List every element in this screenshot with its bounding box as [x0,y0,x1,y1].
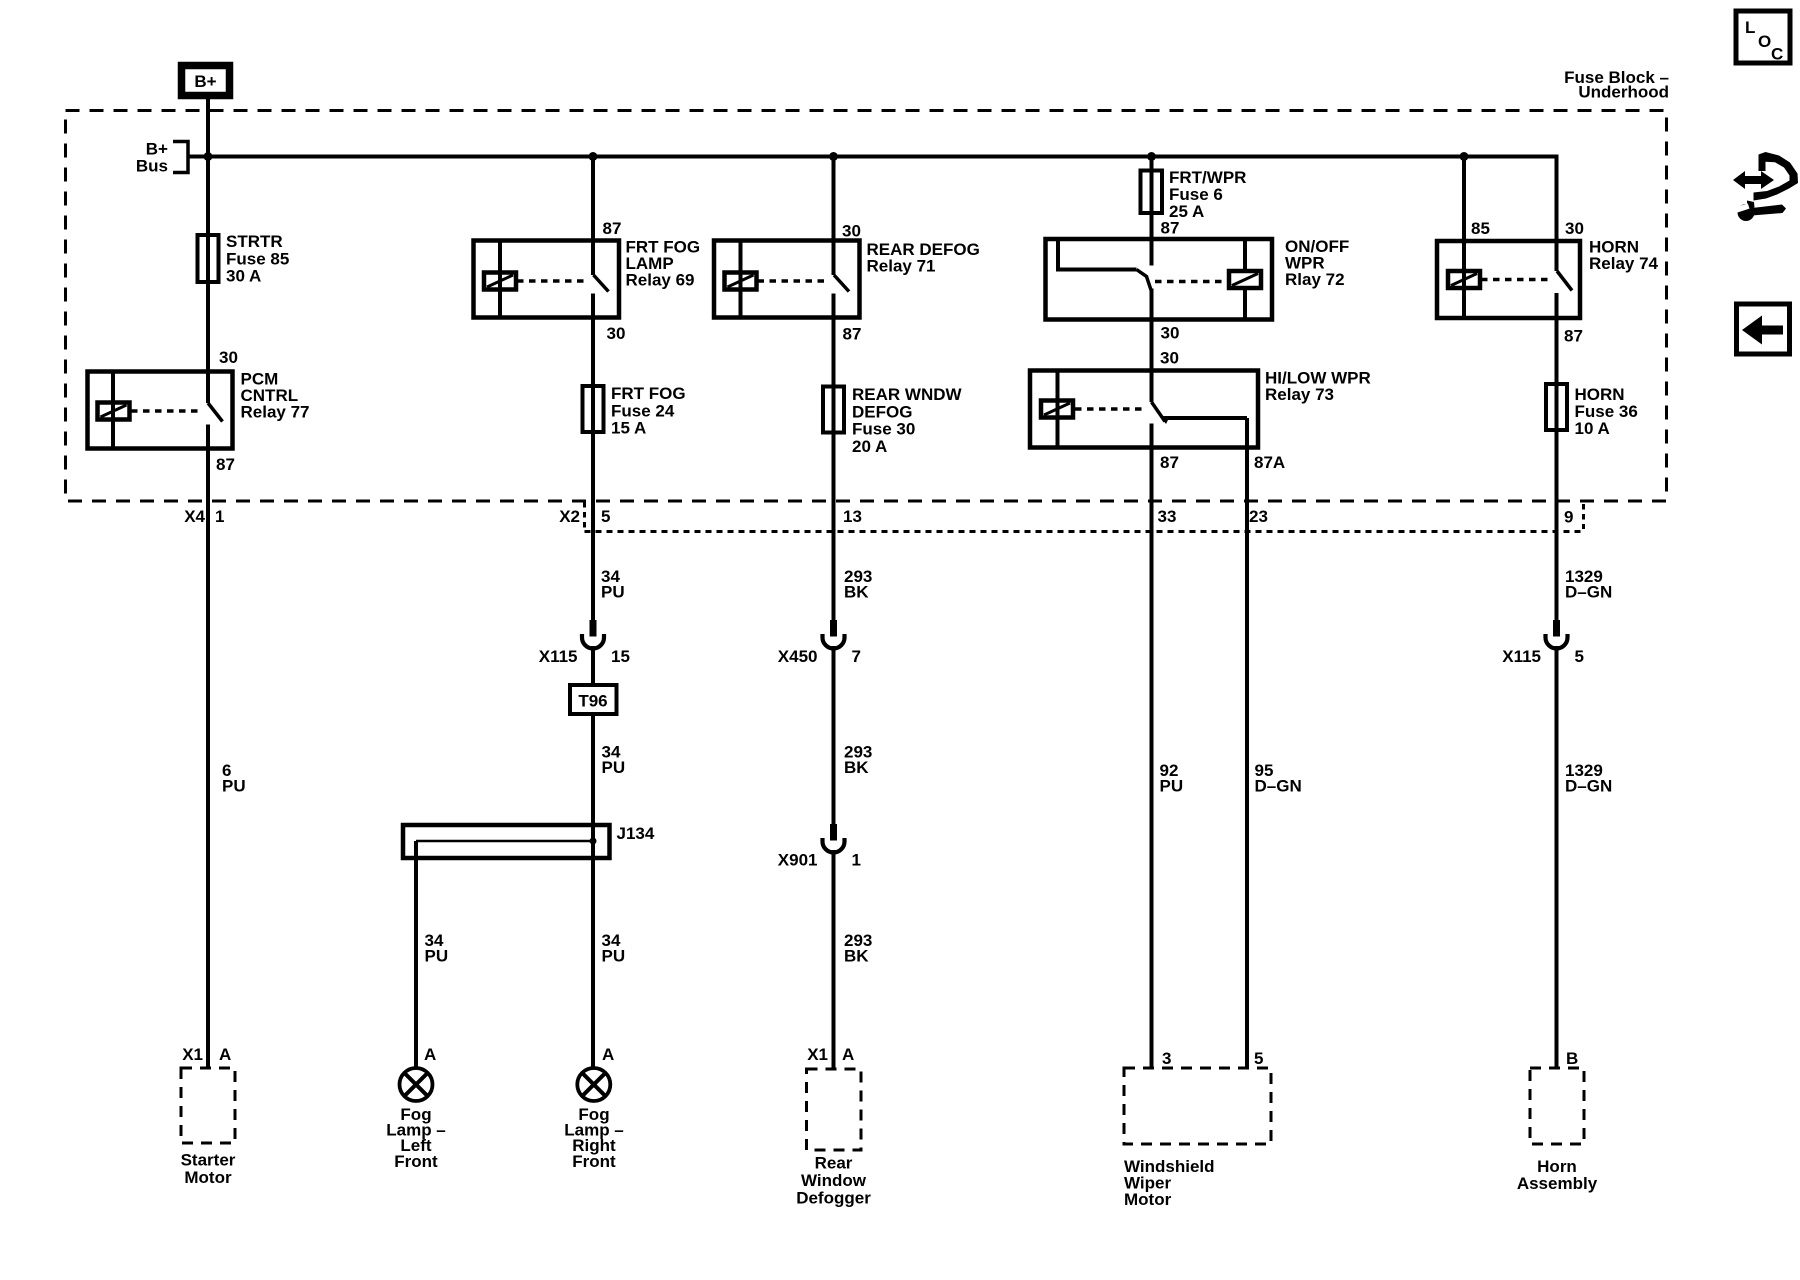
svg-text:A: A [602,1045,614,1064]
fuse block underhood dashed boundary [66,111,1667,502]
svg-text:X115: X115 [539,647,578,666]
svg-text:87: 87 [1160,453,1179,472]
svg-text:87: 87 [1161,219,1180,238]
svg-text:85: 85 [1471,219,1490,238]
svg-text:Assembly: Assembly [1517,1174,1598,1193]
svg-text:13: 13 [843,507,862,526]
connector X2 right dashed tick [1582,504,1585,529]
svg-text:87: 87 [1564,327,1583,346]
svg-text:Motor: Motor [184,1168,232,1187]
svg-text:Window: Window [801,1171,867,1190]
B+ Bus bracket [173,142,188,173]
horn assembly box [1530,1068,1584,1144]
svg-text:33: 33 [1158,507,1177,526]
svg-text:1: 1 [215,507,224,526]
svg-text:PU: PU [602,758,626,777]
back arrow icon [1737,304,1790,354]
fuse FRT FOG Fuse 24 15A [583,386,604,432]
svg-text:REAR WNDW: REAR WNDW [852,385,962,404]
relay REAR DEFOG Relay 71 [714,241,860,318]
svg-text:30 A: 30 A [226,267,261,286]
fuse STRTR Fuse 85 30A [198,235,219,282]
connector X2 left dashed tick [583,502,586,530]
svg-text:A: A [842,1045,854,1064]
relay ON/OFF WPR Rlay 72 [1046,239,1273,320]
wire bus to PCM relay pin 30 through STRTR fuse [206,157,210,404]
relay FRT FOG LAMP Relay 69 [474,241,620,318]
svg-text:15: 15 [611,647,630,666]
fuse block connector X2 row dotted line [585,530,1584,533]
power feed B+ box [182,66,230,96]
svg-text:87: 87 [216,455,235,474]
svg-text:T96: T96 [578,692,607,711]
svg-text:X4: X4 [184,507,205,526]
svg-text:O: O [1758,32,1771,51]
wire X901 to rear window defogger [832,850,836,1069]
fuse REAR WNDW DEFOG Fuse 30 20A [823,387,844,433]
svg-text:X901: X901 [778,851,818,870]
svg-text:STRTR: STRTR [226,232,283,251]
inline connector X901 pin 1 [830,824,837,841]
svg-text:DEFOG: DEFOG [852,402,912,421]
wire bus to FRT FOG relay pin 87 [591,157,595,276]
svg-text:5: 5 [1575,647,1584,666]
svg-text:X2: X2 [559,507,580,526]
windshield wiper motor box [1124,1068,1271,1144]
svg-text:15 A: 15 A [611,419,646,438]
svg-text:5: 5 [1254,1049,1263,1068]
svg-text:30: 30 [1161,324,1180,343]
wire B+ feed down to bus [206,98,210,160]
node junction STRTR branch [204,152,213,161]
svg-text:BK: BK [844,583,869,602]
wire relay 73 pin 87A to wiper motor [1245,418,1249,1068]
svg-text:Relay 77: Relay 77 [241,403,310,422]
svg-text:Fuse 24: Fuse 24 [611,401,675,420]
relay PCM CNTRL Relay 77 [88,372,233,449]
svg-text:PU: PU [1160,777,1184,796]
wire PCM relay pin 87 to starter motor [206,425,210,1069]
inline connector X115 pin 15 [590,620,597,637]
svg-text:BK: BK [844,758,869,777]
svg-text:Defogger: Defogger [796,1189,871,1208]
wire B+ bus horizontal [187,155,1559,159]
svg-text:Fuse 85: Fuse 85 [226,249,289,268]
svg-text:Underhood: Underhood [1578,83,1669,102]
svg-text:Front: Front [572,1152,616,1171]
node junction FRT FOG branch [589,152,598,161]
svg-text:A: A [424,1045,436,1064]
wire bus to ON/OFF WPR relay pin 87 through FRT/WPR fuse [1150,157,1154,266]
svg-text:Relay 73: Relay 73 [1265,385,1334,404]
svg-text:Relay 71: Relay 71 [867,257,936,276]
svg-text:30: 30 [219,348,238,367]
node junction HORN 85 branch [1460,152,1469,161]
svg-text:J134: J134 [617,824,655,843]
svg-text:1: 1 [852,851,861,870]
svg-text:D–GN: D–GN [1565,583,1612,602]
svg-text:Rear: Rear [815,1154,853,1173]
svg-text:PU: PU [601,583,625,602]
wire bus corner to HORN relay pin 30 [1555,157,1559,272]
svg-text:X1: X1 [182,1045,203,1064]
svg-text:Bus: Bus [136,157,168,176]
splice T96 [570,685,617,714]
wire X450 to X901 [832,646,836,825]
svg-text:Relay 74: Relay 74 [1589,254,1659,273]
svg-text:23: 23 [1249,507,1268,526]
wire bus to HORN relay pin 85 [1462,157,1466,246]
svg-text:A: A [219,1045,231,1064]
node junction REAR DEFOG branch [829,152,838,161]
wire X115 to splice T96 [591,646,595,686]
svg-text:Rlay 72: Rlay 72 [1285,270,1345,289]
svg-text:Front: Front [394,1152,438,1171]
wire relay 69 pin 30 to connector X115 through FRT FOG fuse [591,294,595,622]
lamp Fog Lamp Right Front [577,1068,610,1101]
svg-text:30: 30 [1565,219,1584,238]
svg-text:FRT FOG: FRT FOG [611,384,686,403]
wire relay 71 pin 87 to connector X450 through REAR WNDW DEFOG fuse [832,294,836,622]
relay HORN Relay 74 [1437,241,1580,318]
svg-text:D–GN: D–GN [1565,777,1612,796]
svg-text:X450: X450 [778,647,818,666]
svg-text:L: L [1745,18,1755,37]
svg-text:X115: X115 [1502,647,1541,666]
svg-text:B+: B+ [194,72,216,91]
svg-text:30: 30 [842,222,861,241]
wire T96 to splice J134 [591,713,595,841]
svg-text:9: 9 [1564,508,1573,527]
relay HI/LOW WPR Relay 73 [1030,371,1258,448]
svg-text:87: 87 [843,325,862,344]
rear window defogger box [807,1069,862,1150]
svg-text:20 A: 20 A [852,437,887,456]
svg-text:30: 30 [1160,349,1179,368]
page locator LOC icon [1736,11,1790,63]
wire relay 72 pin 30 to relay 73 pin 30 [1150,289,1154,403]
wire bus to REAR DEFOG relay pin 30 [832,157,836,276]
svg-text:87A: 87A [1254,453,1285,472]
fuse HORN Fuse 36 10A [1546,384,1567,430]
svg-text:D–GN: D–GN [1255,777,1302,796]
svg-text:10 A: 10 A [1575,419,1610,438]
wire relay 74 pin 87 to connector X115 through HORN fuse [1555,293,1559,621]
svg-text:B: B [1566,1049,1578,1068]
inline connector X450 pin 7 [830,620,837,637]
starter motor box [181,1068,235,1143]
svg-text:Starter: Starter [181,1151,236,1170]
svg-text:BK: BK [844,947,869,966]
node junction FRT/WPR branch [1147,152,1156,161]
splice pack J134 [403,825,610,858]
diagnostic double-arrow and wrench icon [1733,152,1798,221]
svg-text:Motor: Motor [1124,1190,1172,1209]
wire X115 to horn assembly [1555,646,1559,1068]
wire J134 to left fog lamp [414,841,418,1069]
lamp Fog Lamp Left Front [400,1068,433,1101]
svg-text:C: C [1771,45,1783,64]
svg-text:PU: PU [222,777,246,796]
svg-text:Relay 69: Relay 69 [626,271,695,290]
svg-text:7: 7 [852,647,861,666]
wire J134 to right fog lamp [591,841,595,1069]
svg-text:3: 3 [1162,1049,1171,1068]
svg-text:Fuse 30: Fuse 30 [852,420,915,439]
wire relay 73 pin 87 to wiper motor [1150,424,1154,1069]
svg-text:PU: PU [425,947,449,966]
svg-text:X1: X1 [807,1045,828,1064]
svg-text:87: 87 [603,219,622,238]
svg-text:5: 5 [601,507,610,526]
inline connector X115 pin 5 right [1553,620,1560,637]
fuse FRT/WPR Fuse 6 25A [1141,171,1163,214]
svg-text:PU: PU [602,947,626,966]
svg-text:30: 30 [607,324,626,343]
